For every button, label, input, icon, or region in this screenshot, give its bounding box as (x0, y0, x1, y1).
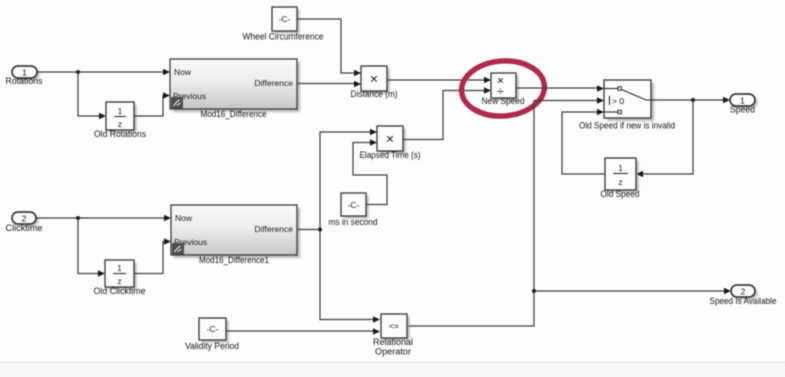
svg-text:<=: <= (389, 321, 399, 331)
constant ms in second (329, 193, 378, 227)
wire Rotations to Now (37, 69, 170, 76)
svg-text:Clicktime: Clicktime (6, 223, 43, 233)
svg-text:Difference: Difference (254, 78, 293, 88)
svg-text:New Speed: New Speed (482, 96, 525, 106)
svg-text:z: z (118, 119, 122, 129)
svg-text:Old Rotations: Old Rotations (94, 129, 146, 139)
svg-text:Old Speed: Old Speed (601, 189, 640, 199)
subsystem Mod16_Difference1 (171, 205, 300, 265)
svg-text:Now: Now (175, 213, 193, 223)
wire branch down to Relational Operator (320, 230, 380, 323)
svg-text:Now: Now (174, 67, 192, 77)
svg-text:Elapsed Time (s): Elapsed Time (s) (360, 150, 421, 160)
svg-text:z: z (618, 177, 622, 187)
node junction difference1 (318, 228, 322, 232)
svg-text:Rotations: Rotations (6, 76, 43, 86)
wire to Speed Is Available port (534, 288, 731, 295)
node junction rotations (76, 70, 80, 74)
wire Old Rotations to Previous (134, 92, 170, 116)
wire Old Speed to Switch input 3 (562, 109, 605, 174)
wire branch down to Old Rotations (78, 72, 106, 119)
switch Old Speed if new is invalid (579, 80, 675, 131)
svg-text:2: 2 (22, 214, 27, 224)
svg-text:Distance (m): Distance (m) (351, 89, 398, 99)
product Elapsed Time (s) (360, 126, 421, 160)
svg-text:Difference: Difference (254, 224, 293, 234)
relational operator (373, 314, 413, 357)
svg-text:1: 1 (618, 163, 623, 173)
wire Distance to New Speed x input (387, 77, 491, 84)
wire Wheel Circumference to Distance (297, 19, 361, 76)
svg-text:Old Speed if new is invalid: Old Speed if new is invalid (579, 121, 675, 131)
outport 2 Speed Is Available (710, 285, 777, 306)
node junction speed feedback (691, 98, 695, 102)
wire Difference1 to junction (297, 229, 320, 231)
node junction clicktime (76, 216, 80, 220)
unit delay Old Rotations (94, 102, 146, 139)
wire Switch to Speed port (651, 97, 730, 104)
unit delay Old Speed (601, 158, 640, 199)
product Distance (m) (351, 66, 398, 99)
svg-text:Old Clicktime: Old Clicktime (94, 286, 146, 296)
inport 1 Rotations (6, 66, 43, 86)
svg-text:Speed: Speed (730, 105, 755, 115)
inport 2 Clicktime (6, 212, 43, 233)
svg-text:1: 1 (117, 263, 122, 273)
wire Relational net to Switch control (406, 97, 604, 326)
svg-text:×: × (370, 71, 378, 87)
svg-text:×: × (386, 131, 394, 147)
wire Old Clicktime to Previous (134, 238, 171, 273)
svg-text:Relational: Relational (373, 337, 413, 347)
constant Validity Period (185, 318, 239, 351)
product divide New Speed (482, 73, 525, 106)
svg-text:-C-: -C- (207, 324, 219, 334)
svg-text:1: 1 (118, 106, 123, 116)
wire ms in second to Elapsed Time (353, 139, 387, 204)
constant Wheel Circumference (243, 7, 324, 42)
svg-text:z: z (117, 276, 121, 286)
svg-text:Speed Is Available: Speed Is Available (710, 296, 777, 306)
svg-text:ms in second: ms in second (329, 217, 378, 227)
wire New Speed to Switch input 1 (516, 85, 604, 92)
wire Elapsed Time to New Speed divide input (403, 87, 491, 139)
svg-text:Validity Period: Validity Period (185, 341, 239, 351)
wire Difference to Distance (297, 81, 361, 88)
svg-text:-C-: -C- (348, 200, 360, 210)
node junction speed-is-available (532, 289, 536, 293)
wire Clicktime to Now (36, 215, 171, 222)
annotation red ellipse (460, 58, 547, 119)
svg-text:Mod16_Difference1: Mod16_Difference1 (199, 255, 269, 265)
svg-text:Operator: Operator (375, 347, 411, 357)
wire Validity Period to Relational Operator (226, 328, 380, 335)
wire vertical net Difference1 branch (320, 129, 377, 230)
svg-text:-C-: -C- (279, 14, 291, 24)
outport 1 Speed (730, 94, 758, 115)
unit delay Old Clicktime (94, 260, 146, 296)
wire branch down to Old Clicktime (78, 218, 105, 277)
svg-text:Wheel Circumference: Wheel Circumference (243, 32, 324, 42)
svg-text:2: 2 (741, 287, 746, 297)
svg-text:> 0: > 0 (612, 96, 624, 106)
bottom frame line (0, 362, 785, 363)
svg-text:Mod16_Difference: Mod16_Difference (201, 109, 267, 119)
subsystem Mod16_Difference (170, 59, 300, 119)
wire feedback down to Old Speed (636, 100, 693, 177)
